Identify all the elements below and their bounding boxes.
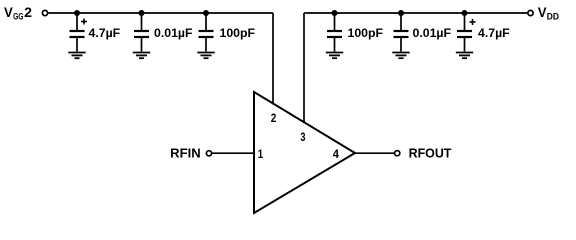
ground for C2 (133, 53, 150, 59)
terminal RFOUT (395, 151, 400, 156)
wire: rail down to pin 2 (272, 13, 274, 105)
ground for C3 (197, 53, 214, 59)
svg-text:GG: GG (13, 11, 23, 22)
svg-text:3: 3 (300, 130, 305, 144)
junction dot D (332, 10, 338, 16)
wire: VGG2 rail (48, 12, 273, 14)
junction dot B (139, 10, 145, 16)
wire: pin 4 to RFOUT (355, 152, 394, 154)
svg-text:4.7µF: 4.7µF (478, 26, 510, 40)
wire: VDD rail (304, 12, 527, 14)
junction dot E (398, 10, 404, 16)
junction dot F (462, 10, 468, 16)
svg-text:0.01µF: 0.01µF (154, 26, 193, 40)
capacitor C2 0.01uF (134, 13, 149, 52)
capacitor C1 4.7uF polarized (70, 13, 88, 52)
svg-text:4: 4 (333, 147, 339, 161)
svg-text:1: 1 (258, 147, 264, 161)
svg-text:100pF: 100pF (220, 26, 256, 40)
svg-text:100pF: 100pF (348, 26, 384, 40)
capacitor C3 100pF (199, 13, 214, 52)
svg-text:2: 2 (24, 5, 32, 20)
wire: pin 3 up to VDD rail (303, 13, 305, 123)
ground for C6 (456, 53, 473, 59)
svg-text:0.01µF: 0.01µF (413, 26, 452, 40)
capacitor C4 100pF (327, 13, 342, 52)
svg-text:RFIN: RFIN (170, 145, 201, 160)
capacitor C5 0.01uF (394, 13, 409, 52)
svg-text:RFOUT: RFOUT (409, 145, 452, 160)
wire: RFIN to pin 1 (212, 152, 254, 154)
capacitor C6 4.7uF polarized (457, 13, 476, 52)
svg-text:DD: DD (547, 11, 559, 22)
junction dot C (203, 10, 209, 16)
svg-text:2: 2 (271, 111, 277, 125)
terminal VDD (528, 10, 533, 15)
terminal VGG2 (42, 10, 47, 15)
terminal RFIN (206, 151, 211, 156)
svg-text:4.7µF: 4.7µF (89, 26, 121, 40)
ground for C5 (392, 53, 409, 59)
ground for C1 (68, 53, 85, 59)
junction dot A (74, 10, 80, 16)
amplifier U1 (254, 92, 355, 213)
ground for C4 (326, 53, 343, 59)
